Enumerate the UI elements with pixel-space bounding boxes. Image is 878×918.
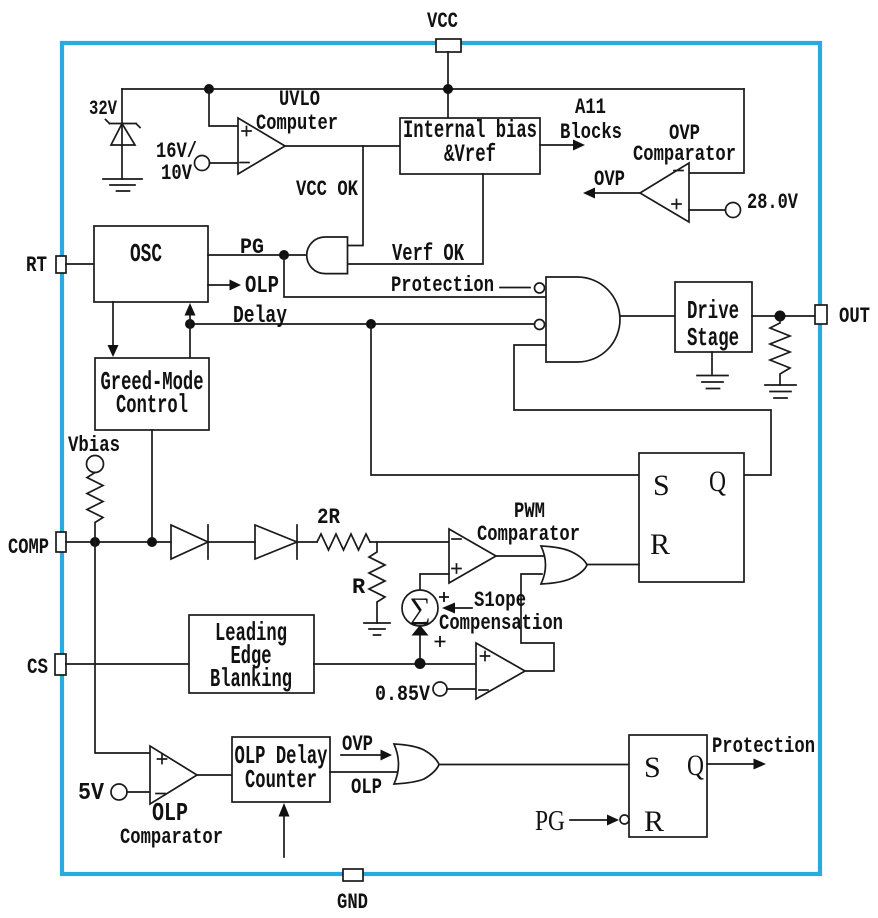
block OLP Delay Counter [232,737,330,802]
svg-text:32V: 32V [89,98,117,121]
wire CS sum input arrow [419,636,421,663]
wire Delay [190,323,535,325]
wire VCC pin stem [447,52,449,118]
op-amp current comparator [476,643,525,699]
wire D2 to 2R [297,541,317,543]
svg-text:Vbias: Vbias [68,433,120,458]
svg-text:GND: GND [337,890,368,915]
RT pin [56,256,66,273]
wire OLP arrow [208,284,230,286]
svg-text:10V: 10V [161,161,193,186]
svg-text:∑: ∑ [409,592,430,625]
wire 0.85V to comparator2 [447,688,476,690]
ground (R) [364,623,390,635]
wire Protection output arrow [707,763,754,765]
op-amp PWM Comparator [449,529,496,583]
node COMP/Vbias [90,537,100,547]
svg-text:OSC: OSC [130,239,162,269]
ground (Drive Stage) [711,352,713,375]
svg-text:PG: PG [535,805,565,837]
block Drive Stage [675,282,752,352]
wire Drive Stage to OUT [752,315,814,317]
block Leading Edge Blanking [189,615,314,693]
wire feedback Q to and-gate [514,345,771,475]
svg-text:UVLO: UVLO [279,87,320,112]
bubble Protection input [535,283,545,293]
wire Greed-Mode to COMP [151,430,153,542]
svg-text:Comparator: Comparator [477,522,580,547]
wire UVLO plus input [209,89,238,126]
svg-text:Comparator: Comparator [633,142,736,167]
terminal 5V [111,784,127,800]
op-amp OLP Comparator [150,746,197,804]
svg-text:OUT: OUT [839,304,870,329]
wire COMP to OLP comparator [95,542,150,753]
block Greed-Mode Control [95,358,209,430]
wire OSC feedback up arrow [189,315,191,324]
label plus sigma bottom [435,636,446,647]
or-gate O2 [394,744,439,784]
svg-text:5V: 5V [78,780,105,807]
svg-text:CS: CS [27,655,48,680]
wire slope compensation arrow [454,607,472,609]
wire PWM output [496,555,544,557]
wire Protection input [500,287,530,289]
wire VCC rail [122,88,744,90]
wire PG to R input [570,819,608,821]
wire and-gate to Drive Stage [620,315,675,317]
svg-text:Protection: Protection [712,734,815,759]
flip-flop FF2 (protection latch) [629,735,707,837]
ground (zener) [103,179,142,191]
summing junction sigma [402,590,438,626]
wire S input to flip-flop [371,324,639,475]
svg-text:Blocks: Blocks [560,120,622,145]
and-gate A1 (left facing, VCC OK / Verf OK) [307,237,348,274]
svg-text:2R: 2R [317,505,341,530]
wire OVP arrow to or-gate [341,754,382,756]
svg-text:VCC: VCC [427,9,458,34]
wire OVP output arrow [593,192,640,194]
node Delay/S [366,319,376,329]
zener diode 32V [121,89,123,179]
node OUT [775,311,786,322]
wire sigma to PWM plus [420,574,449,590]
resistor Vbias [87,473,103,543]
wire PG [208,254,307,256]
svg-text:Compensation: Compensation [439,611,563,636]
svg-text:&Vref: &Vref [444,140,496,169]
chip boundary [62,43,820,874]
wire UVLO minus input [210,162,239,164]
wire counter clock up arrow [283,816,285,857]
wire D1 to D2 [208,541,255,543]
block Internal bias &Vref [400,118,540,174]
node VCC rail / zener [204,84,214,94]
wire OLP to or-gate [330,771,398,773]
VCC pin [436,39,461,52]
svg-text:R: R [352,575,366,600]
terminal 0.85V [433,682,447,696]
diode D1 [171,525,208,559]
COMP pin [56,532,66,552]
OUT pin [815,305,827,324]
diode D2 [255,525,297,559]
wire CS to LEB [66,663,189,665]
svg-text:VCC OK: VCC OK [296,177,359,202]
wire comparator2 to or-gate [521,574,554,671]
GND pin [343,869,363,881]
svg-text:Drive: Drive [687,296,739,326]
svg-text:COMP: COMP [8,535,49,560]
svg-text:S: S [644,751,661,784]
wire OSC to Greed-Mode right [189,324,191,358]
svg-text:OLP: OLP [152,798,188,828]
resistor at OUT [770,316,790,385]
label plus sigma right [439,592,449,602]
wire COMP rail [66,541,171,543]
svg-text:Delay: Delay [233,303,287,330]
svg-text:A11: A11 [575,95,606,120]
svg-text:Blanking: Blanking [210,664,292,694]
wire PG to drive and-gate [284,255,546,297]
block OSC [94,226,208,302]
wire or-gate to R input [587,564,639,566]
flip-flop FF1 (PWM latch) [639,453,744,582]
wire OLP comparator to counter [197,774,232,776]
svg-text:OLP: OLP [351,775,382,800]
wire 2R to PWM comparator [370,541,449,543]
terminal Vbias [87,456,104,473]
terminal 16V/10V [195,156,210,171]
wire Greed-Mode down arrow [112,302,114,346]
svg-text:Q: Q [687,749,704,782]
svg-text:PG: PG [240,235,264,260]
svg-text:Computer: Computer [256,111,338,136]
svg-text:Verf OK: Verf OK [392,241,464,268]
svg-text:Q: Q [709,465,726,498]
or-gate O1 [541,546,587,584]
svg-text:PWM: PWM [514,499,545,524]
node PG [279,250,289,260]
op-amp OVP Comparator (left-facing) [640,163,689,222]
wire VCC OK [348,146,363,246]
bubble R input FF2 [620,815,629,824]
CS pin [55,654,66,675]
svg-text:Comparator: Comparator [120,825,223,850]
ground (OUT resistor) [765,385,796,398]
node LEB/sum [415,658,426,669]
wire LEB output [314,663,476,665]
svg-text:OVP: OVP [594,167,625,192]
svg-text:R: R [644,805,664,838]
wire A11 Blocks arrow [540,144,574,146]
node COMP/Greed-Mode [147,537,157,547]
wire VCC rail to OVP comparator [689,89,744,173]
resistor 2R [317,534,370,550]
svg-text:Control: Control [116,390,188,420]
svg-text:RT: RT [26,253,47,278]
bubble Delay input [535,320,545,330]
svg-text:OVP: OVP [342,732,373,757]
node VCC rail / bias [443,84,453,94]
terminal 28.0V [689,209,726,211]
wire UVLO output [285,145,400,147]
svg-text:0.85V: 0.85V [375,682,431,707]
node Delay/OSC [185,319,195,329]
wire Verf OK [348,174,483,264]
svg-text:Protection: Protection [391,273,494,298]
wire 5V to OLP comparator [127,791,150,793]
op-amp U1 UVLO Computer [238,118,285,174]
svg-text:S1ope: S1ope [474,588,526,613]
svg-text:Stage: Stage [687,323,739,353]
svg-text:Counter: Counter [245,765,317,795]
svg-text:S: S [653,469,670,502]
svg-text:28.0V: 28.0V [747,190,799,215]
svg-text:OLP: OLP [245,273,279,300]
resistor R [369,542,385,623]
and-gate A2 (drive logic) [546,277,620,362]
wire RT to OSC [66,263,94,265]
svg-text:R: R [650,528,670,561]
wire or-gate to S input FF2 [439,764,629,766]
